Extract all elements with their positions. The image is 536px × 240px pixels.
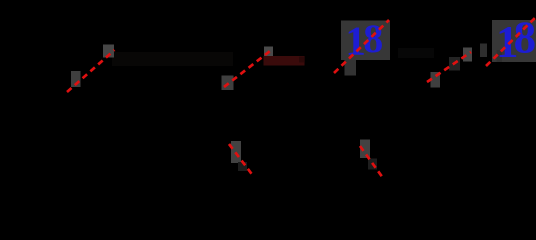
tall halo below label 18 (structure 3)	[345, 60, 357, 76]
cleavage line 3 through label 18	[334, 20, 389, 73]
bottom cleavage line 2	[360, 146, 383, 178]
halo box behind fragment label 18 (structure 4)	[492, 20, 536, 62]
halo box at cleavage 4a middle	[449, 57, 460, 71]
cleavage line 4b through label 18	[486, 16, 536, 67]
background field	[0, 0, 536, 179]
dark red label dot	[299, 57, 304, 63]
halo box at cleavage 4a lower end	[431, 72, 441, 88]
halo box at cleavage 2 lower end	[222, 76, 234, 91]
cleavage line 2	[224, 51, 270, 87]
halo box at cleavage 2 upper end	[264, 47, 273, 59]
halo box at cleavage 4a upper end	[463, 48, 472, 62]
halo box at bottom cleavage 2	[360, 140, 370, 159]
faint halo extension bottom cleavage 1	[238, 162, 247, 171]
halo box at cleavage 1 upper end	[103, 45, 114, 58]
halo box at bottom cleavage 1	[231, 141, 241, 163]
cleavage line 1	[67, 50, 115, 92]
cleavage line 4a	[427, 52, 471, 82]
halo box at cleavage 1 lower end	[71, 71, 81, 87]
svg-text:8: 8	[363, 16, 383, 61]
halo box behind fragment label 18 (structure 3)	[341, 21, 390, 61]
faint halo band right of structure 3	[398, 48, 434, 58]
faint halo extension bottom cleavage 2	[368, 159, 377, 170]
fragment label 18 (structure 4)	[496, 12, 536, 67]
faint atom-label halo band (structure 1/2 row)	[112, 52, 233, 66]
small halo at cleavage 4b lower end	[497, 50, 503, 62]
dark red ethoxy label band	[264, 56, 305, 66]
small halo left of label 18 (structure 4)	[480, 44, 487, 58]
bottom cleavage line 1	[229, 144, 254, 177]
fragment label 18 (structure 3)	[345, 16, 383, 63]
